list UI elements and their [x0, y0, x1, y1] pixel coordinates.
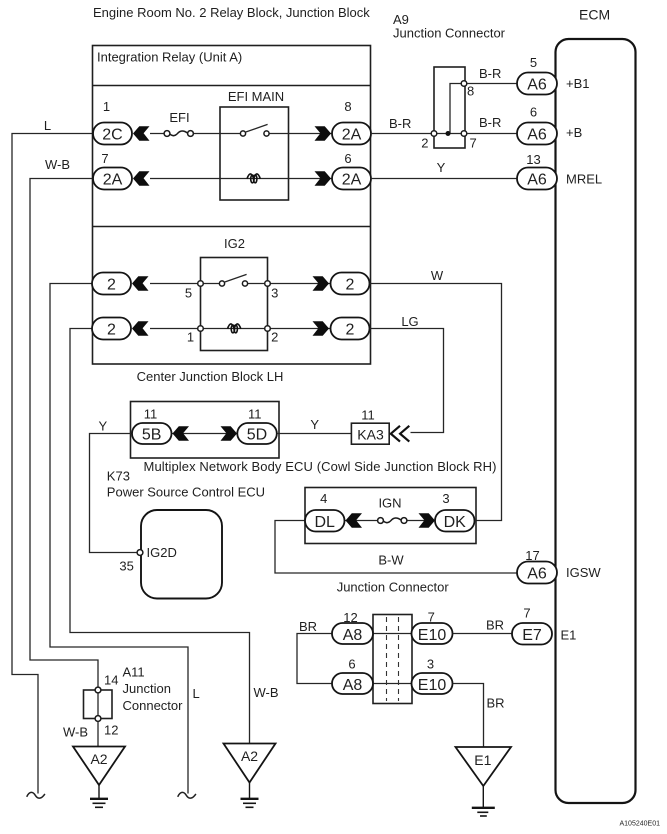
svg-text:2: 2: [421, 136, 428, 151]
svg-text:IGN: IGN: [378, 496, 401, 511]
wire A9 internal bus pin2-pin7: [434, 133, 464, 135]
terminal double chevron (KA3): [391, 426, 410, 442]
svg-text:2: 2: [107, 322, 116, 339]
svg-text:A6: A6: [527, 172, 547, 189]
svg-text:6: 6: [344, 151, 351, 166]
svg-text:11: 11: [361, 408, 375, 423]
wire A9 internal pin8 drop: [450, 84, 461, 134]
svg-text:A8: A8: [343, 627, 363, 644]
multiplex network body ECU box: [131, 402, 280, 459]
svg-text:7: 7: [428, 610, 435, 625]
junction connector bus dash 2: [398, 617, 400, 701]
svg-text:BR: BR: [299, 619, 317, 634]
ground triangle E1: [456, 747, 512, 786]
connector oval A6 pin6 (+B): [517, 123, 557, 145]
svg-text:12: 12: [343, 610, 357, 625]
svg-text:Connector: Connector: [123, 698, 184, 713]
ground symbol (E1): [472, 786, 495, 816]
svg-text:EFI: EFI: [169, 110, 189, 125]
svg-text:5B: 5B: [142, 427, 162, 444]
ground symbol (A2 right): [241, 783, 259, 808]
junction connector A11 box: [84, 690, 113, 719]
wire BR jumper: A8 pin12 to A8 pin6: [297, 634, 333, 684]
svg-text:7: 7: [101, 151, 108, 166]
relay EFI MAIN box: [220, 107, 289, 200]
svg-text:IGSW: IGSW: [566, 565, 601, 580]
pin circle A9 pin8: [461, 81, 467, 87]
wire B-R: A9 pin8 to ECM +B1: [467, 83, 517, 85]
svg-text:1: 1: [187, 330, 194, 345]
svg-text:17: 17: [525, 548, 539, 563]
terminal arrow (5D): [221, 426, 238, 441]
junction connector (bottom) box: [373, 615, 412, 704]
svg-text:A2: A2: [90, 751, 107, 767]
svg-text:6: 6: [530, 105, 537, 120]
connector oval DL: [305, 510, 345, 532]
svg-text:5D: 5D: [247, 427, 267, 444]
svg-text:2C: 2C: [102, 127, 122, 144]
terminal arrow (2A pin6): [315, 171, 332, 186]
connector oval 2A pin7: [93, 168, 132, 190]
svg-text:A105240E01: A105240E01: [620, 821, 661, 828]
wire W-B net: 2A pin7 to A11 pin 14: [30, 179, 98, 688]
terminal arrow (IG2 row2 left): [132, 321, 149, 336]
svg-text:B-W: B-W: [378, 553, 404, 568]
svg-text:A2: A2: [241, 748, 258, 764]
wire inside DL/DK: [344, 520, 436, 522]
svg-text:E1: E1: [561, 628, 577, 643]
connector oval 5D: [237, 423, 276, 444]
switch blade (IG2): [225, 274, 247, 282]
svg-text:35: 35: [119, 559, 133, 574]
svg-text:KA3: KA3: [357, 427, 384, 443]
switch contacts (IG2): [219, 281, 247, 286]
svg-text:W-B: W-B: [254, 685, 279, 700]
svg-text:12: 12: [104, 723, 118, 738]
connector oval 2 (IG2 row2 right): [331, 318, 370, 340]
svg-text:ECM: ECM: [579, 7, 610, 23]
wire A11 pin12 to A2 ground: [97, 721, 99, 746]
svg-text:5: 5: [185, 286, 192, 301]
terminal arrow (2A pin7): [133, 171, 150, 186]
wire IG2 pin5 net to bottom L break: [50, 284, 188, 794]
relay KA3 box: [351, 423, 389, 444]
relay IG2 box: [201, 258, 268, 351]
svg-text:7: 7: [523, 606, 530, 621]
break symbol (bottom L wire): [178, 792, 196, 798]
wire BR: E10 pin7 to E7: [453, 633, 513, 635]
svg-text:2: 2: [107, 277, 116, 294]
connector oval 2A pin8: [332, 123, 371, 145]
wire through junction connector row2: [372, 683, 413, 685]
svg-text:A6: A6: [527, 127, 547, 144]
connector oval 5B: [132, 423, 172, 444]
wire B-R: A9 pin7 to ECM +B: [467, 133, 517, 135]
svg-text:7: 7: [470, 136, 477, 151]
pin circle A11 pin14: [95, 687, 101, 693]
svg-text:E7: E7: [522, 627, 542, 644]
pin circle IG2 pin5: [198, 281, 204, 287]
svg-text:11: 11: [248, 407, 262, 422]
wire L net: 2C to bottom break: [12, 134, 93, 794]
connector oval E10 pin7: [412, 623, 453, 644]
wire Y: 2A pin6 to ECM MREL: [371, 178, 517, 180]
pin circle IG2 pin3: [265, 281, 271, 287]
wire B-R: 2A pin8 to A9 pin2: [371, 133, 434, 135]
svg-text:MREL: MREL: [566, 172, 602, 187]
wire Y net: 5B to K73 IG2D: [90, 434, 138, 553]
svg-text:W: W: [431, 268, 444, 283]
ECU K73 body: [141, 510, 222, 599]
wire BR: E10 pin3 to E1 ground: [453, 684, 484, 747]
svg-text:IG2: IG2: [224, 236, 245, 251]
svg-text:B-R: B-R: [479, 66, 501, 81]
svg-text:B-R: B-R: [479, 115, 501, 130]
wire LG net: IG2 row2 right to KA3: [370, 329, 444, 433]
terminal arrow (2C): [133, 126, 150, 141]
wire IG2 row2: [150, 328, 332, 330]
svg-text:DL: DL: [314, 514, 335, 531]
connector oval E10 pin3: [412, 673, 453, 694]
terminal arrow (5B): [173, 426, 190, 441]
svg-text:2: 2: [271, 330, 278, 345]
relay coil (IG2): [228, 324, 241, 333]
svg-text:DK: DK: [444, 514, 467, 531]
svg-text:Integration Relay (Unit A): Integration Relay (Unit A): [97, 50, 242, 65]
svg-text:Junction: Junction: [123, 681, 171, 696]
break symbol (L wire): [27, 792, 45, 798]
connector oval 2 (IG2 row1 right): [331, 273, 370, 295]
fuse IGN: [378, 518, 407, 524]
terminal arrow (DL): [346, 513, 363, 528]
svg-text:K73: K73: [107, 469, 130, 484]
svg-text:3: 3: [427, 657, 434, 672]
connector oval A8 pin12: [332, 623, 373, 644]
svg-text:L: L: [193, 686, 200, 701]
svg-text:+B1: +B1: [566, 76, 590, 91]
wire IG2 row1: [150, 283, 332, 285]
svg-text:11: 11: [144, 407, 158, 422]
connector oval 2 (IG2 row2 left): [92, 318, 131, 340]
svg-text:A6: A6: [527, 77, 547, 94]
svg-text:1: 1: [103, 99, 110, 114]
svg-text:2: 2: [346, 322, 355, 339]
svg-text:Power Source Control ECU: Power Source Control ECU: [107, 485, 265, 500]
svg-text:A11: A11: [123, 665, 145, 680]
svg-text:E1: E1: [474, 752, 491, 768]
terminal arrow (IG2 row1 left): [132, 276, 149, 291]
svg-text:BR: BR: [486, 618, 504, 633]
wire W net: IG2 row1 right to DK: [370, 284, 502, 521]
svg-text:Junction Connector: Junction Connector: [337, 580, 450, 595]
ground triangle A2 (right): [224, 744, 276, 783]
svg-text:Engine Room No. 2 Relay Block,: Engine Room No. 2 Relay Block, Junction …: [93, 5, 370, 20]
pin circle IG2 pin1: [198, 326, 204, 332]
connector oval 2A pin6: [332, 168, 371, 190]
relay coil (EFI MAIN): [247, 174, 260, 183]
switch contacts (EFI MAIN relay): [240, 131, 269, 136]
junction connector bus dash 1: [386, 617, 388, 701]
svg-text:3: 3: [271, 286, 278, 301]
connector oval A6 pin17 (IGSW): [517, 562, 557, 584]
svg-text:2A: 2A: [342, 172, 362, 189]
wire row1 inside relay block: [150, 133, 332, 135]
svg-text:A8: A8: [343, 677, 363, 694]
wire Y: 5D to KA3: [277, 433, 351, 435]
wire A11 internal pin14-pin12: [97, 690, 99, 719]
wire B-W net: DL to ECM IGSW: [275, 521, 517, 574]
svg-text:E10: E10: [418, 677, 447, 694]
svg-text:Y: Y: [437, 160, 446, 175]
svg-text:W-B: W-B: [45, 157, 70, 172]
connector oval 2C pin1: [93, 123, 132, 145]
wire through junction connector row1: [372, 633, 413, 635]
svg-text:Y: Y: [310, 417, 319, 432]
svg-text:Center Junction Block LH: Center Junction Block LH: [137, 369, 284, 384]
svg-text:5: 5: [530, 55, 537, 70]
svg-text:B-R: B-R: [389, 116, 411, 131]
fuse EFI: [164, 131, 193, 137]
svg-text:W-B: W-B: [63, 725, 88, 740]
svg-text:LG: LG: [401, 314, 418, 329]
svg-text:Y: Y: [98, 419, 107, 434]
svg-text:8: 8: [344, 99, 351, 114]
wire IG2 pin1 net to A2 ground: [70, 329, 250, 744]
svg-text:+B: +B: [566, 125, 582, 140]
svg-text:IG2D: IG2D: [147, 545, 177, 560]
ground triangle A2 (left): [73, 747, 125, 786]
svg-text:3: 3: [442, 491, 449, 506]
svg-text:6: 6: [348, 657, 355, 672]
svg-text:2: 2: [346, 277, 355, 294]
svg-text:L: L: [44, 118, 51, 133]
pin circle A9 pin2: [431, 131, 437, 137]
junction dot A9: [446, 131, 451, 136]
connector oval A8 pin6: [332, 673, 373, 694]
connector oval 2 (IG2 row1 left): [92, 273, 131, 295]
svg-text:A6: A6: [527, 566, 547, 583]
svg-text:4: 4: [320, 491, 327, 506]
svg-text:13: 13: [526, 152, 540, 167]
pin circle A9 pin7: [461, 131, 467, 137]
terminal arrow (IG2 row2 right): [313, 321, 330, 336]
header divider: [93, 85, 371, 87]
wire row2 inside relay block: [150, 178, 332, 180]
svg-text:2A: 2A: [342, 127, 362, 144]
connector oval A6 pin5 (+B1): [517, 73, 557, 95]
svg-text:BR: BR: [487, 696, 505, 711]
ECM connector body: [556, 39, 636, 803]
section divider: [93, 226, 371, 228]
pin circle IG2 pin2: [265, 326, 271, 332]
svg-text:EFI MAIN: EFI MAIN: [228, 89, 284, 104]
svg-text:8: 8: [467, 84, 474, 99]
wire between 5B and 5D: [171, 433, 238, 435]
svg-text:Multiplex Network Body ECU (Co: Multiplex Network Body ECU (Cowl Side Ju…: [144, 459, 497, 474]
svg-text:E10: E10: [418, 627, 447, 644]
connector oval DK: [435, 510, 475, 532]
pin circle IG2D: [137, 550, 143, 556]
junction connector A9 box: [434, 67, 465, 148]
switch blade (EFI MAIN relay): [246, 124, 268, 132]
svg-text:Junction Connector: Junction Connector: [393, 26, 506, 41]
svg-text:14: 14: [104, 673, 118, 688]
terminal arrow (2A pin8): [315, 126, 332, 141]
relay block outer box: [93, 46, 371, 365]
pin circle A11 pin12: [95, 716, 101, 722]
connector oval E7 pin7: [512, 623, 552, 645]
connector oval A6 pin13 (MREL): [517, 168, 557, 190]
junction block DL/DK box: [305, 488, 476, 544]
terminal arrow (IG2 row1 right): [313, 276, 330, 291]
ground symbol (A2 left): [90, 785, 108, 807]
svg-text:2A: 2A: [103, 172, 123, 189]
terminal arrow (DK): [419, 513, 436, 528]
